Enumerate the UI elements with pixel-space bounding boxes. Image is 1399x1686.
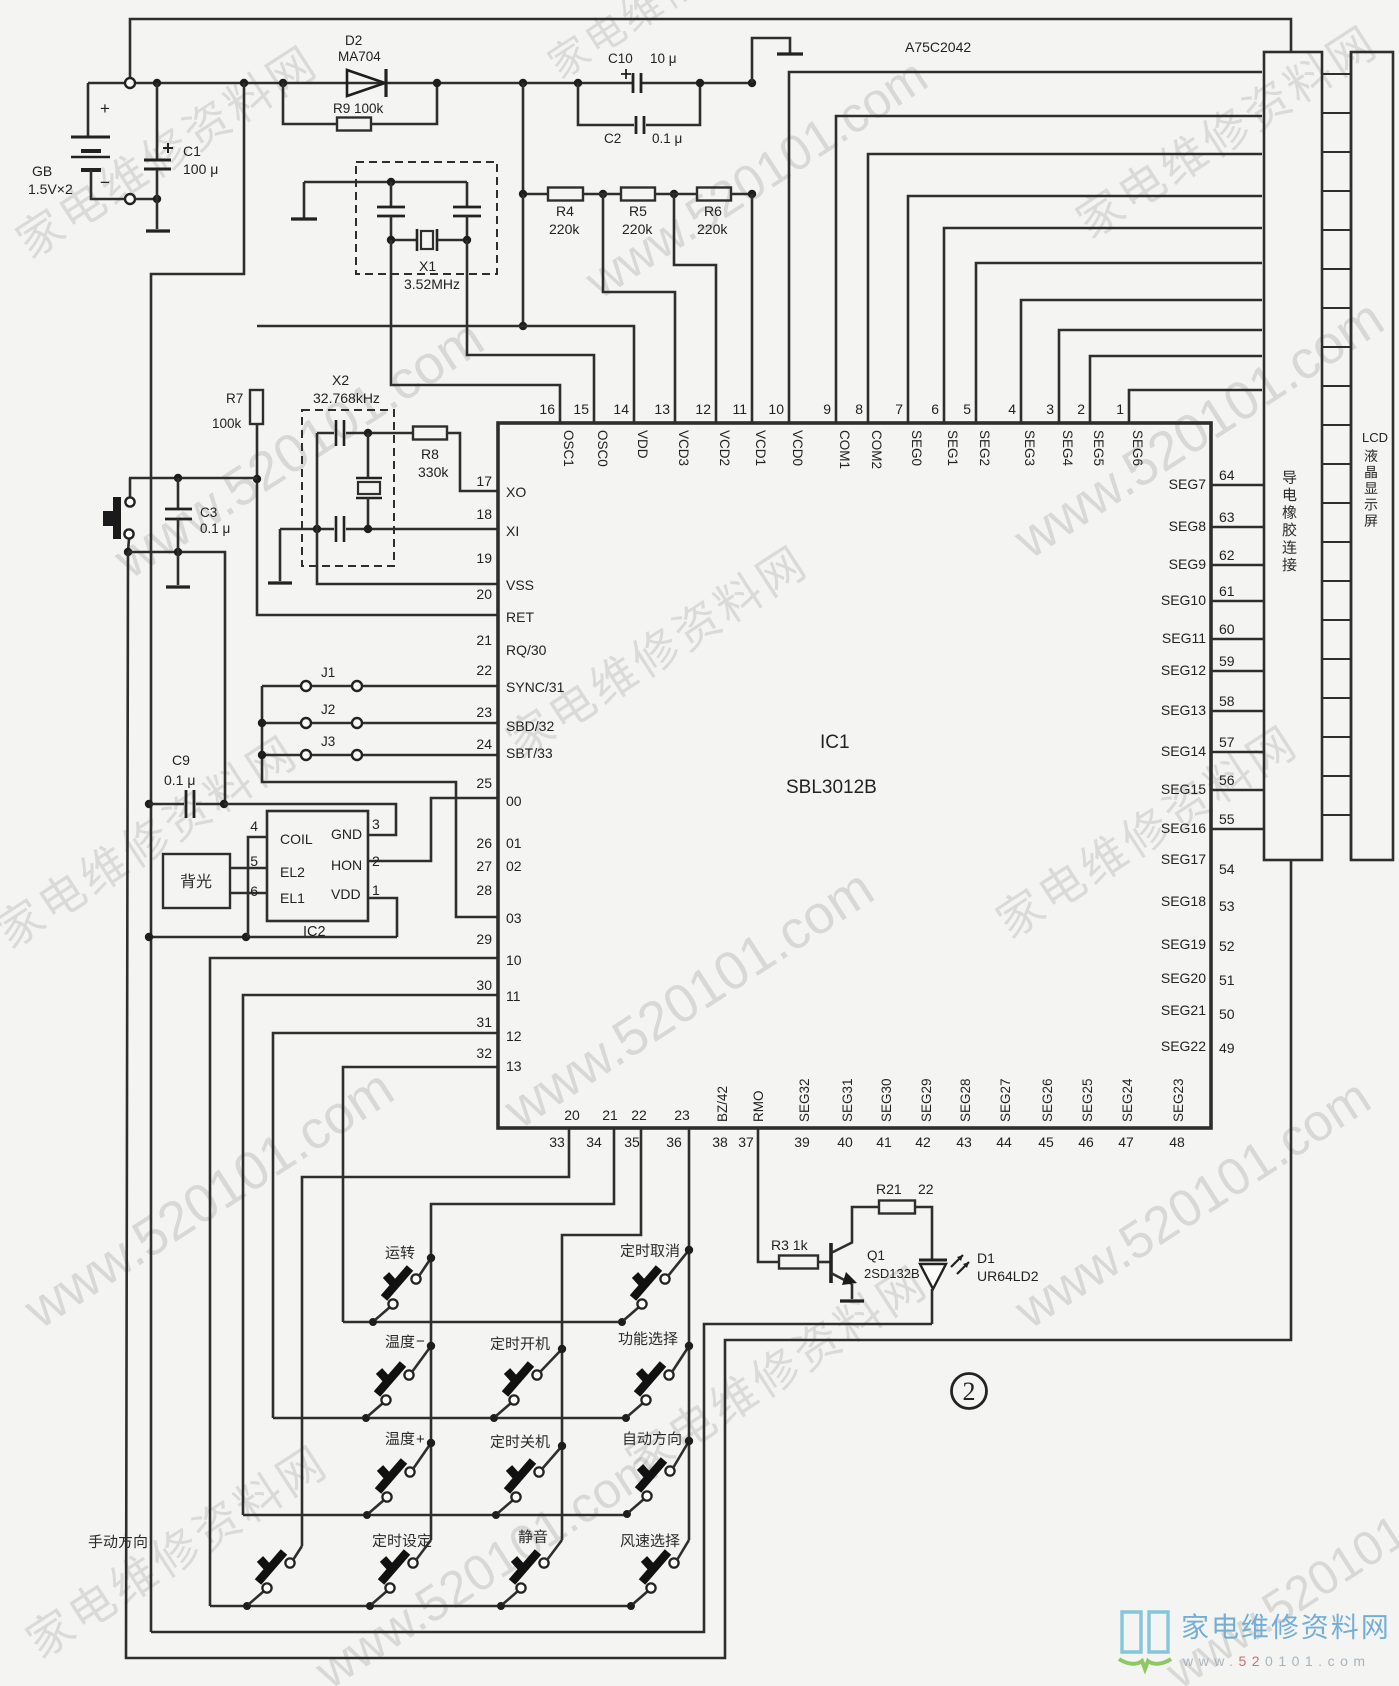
svg-text:RMO: RMO: [751, 1091, 766, 1123]
svg-text:SEG5: SEG5: [1091, 430, 1106, 466]
ground Q1 emitter: [851, 1284, 854, 1299]
wire IC1 SEG15 to LCD connector: [1211, 789, 1264, 792]
svg-text:+: +: [416, 1431, 425, 1448]
wire button row4: [210, 1605, 631, 1608]
svg-text:J2: J2: [321, 702, 335, 717]
svg-text:55: 55: [1219, 811, 1235, 827]
svg-text:11: 11: [732, 401, 747, 417]
svg-text:63: 63: [1219, 509, 1235, 525]
switch timer-off: [492, 1511, 500, 1519]
wire VDD node down: [522, 194, 525, 326]
label conductive rubber: [1282, 471, 1296, 572]
svg-text:49: 49: [1219, 1040, 1235, 1056]
wire IC1 SEG11 to LCD connector: [1211, 638, 1264, 641]
svg-text:52: 52: [1219, 938, 1235, 954]
svg-text:38: 38: [712, 1134, 728, 1150]
svg-text:2: 2: [963, 1377, 976, 1406]
jumper J1 circle left: [301, 681, 311, 691]
svg-text:23: 23: [674, 1107, 690, 1123]
capacitor C10 10u (series in rail): [633, 73, 641, 93]
svg-text:1: 1: [372, 882, 380, 898]
svg-text:40: 40: [837, 1134, 853, 1150]
svg-text:SEG10: SEG10: [1161, 592, 1206, 608]
jumper J1 circle right: [352, 681, 362, 691]
svg-text:SEG32: SEG32: [797, 1078, 812, 1122]
svg-text:4: 4: [250, 818, 258, 834]
svg-text:X1: X1: [419, 258, 436, 274]
svg-text:SEG25: SEG25: [1080, 1078, 1095, 1122]
svg-text:GND: GND: [331, 826, 362, 842]
node C3 bottom: [174, 548, 182, 556]
svg-text:A75C2042: A75C2042: [905, 39, 971, 55]
switch manual-direction: [243, 1602, 251, 1610]
svg-text:16: 16: [539, 401, 555, 417]
wire button common row: [128, 552, 225, 804]
svg-text:62: 62: [1219, 547, 1235, 563]
svg-text:+: +: [100, 99, 110, 118]
wire IC1 SEG9 to LCD connector: [1211, 564, 1264, 567]
svg-text:VDD: VDD: [635, 430, 650, 459]
jumper J3: [262, 754, 300, 757]
svg-text:22: 22: [918, 1181, 934, 1197]
svg-text:SEG24: SEG24: [1120, 1078, 1135, 1122]
wire IC1 SEG14 to LCD connector: [1211, 751, 1264, 754]
svg-text:VDD: VDD: [331, 886, 361, 902]
svg-text:18: 18: [476, 506, 492, 522]
wire IC1 pin 7 to LCD connector: [908, 196, 1262, 423]
svg-text:4: 4: [1008, 401, 1016, 417]
wire C9 to IC2 GND: [224, 804, 396, 835]
section mark circled-2: [952, 1374, 987, 1409]
svg-text:R4: R4: [556, 203, 574, 219]
svg-text:VSS: VSS: [506, 577, 534, 593]
diode D2 MA704: [347, 70, 385, 96]
svg-text:www.520101.com: www.520101.com: [305, 1437, 667, 1686]
svg-text:3: 3: [1046, 401, 1054, 417]
wire IC1 pin 10 to LCD connector: [789, 72, 1262, 423]
svg-text:R3 1k: R3 1k: [771, 1237, 809, 1253]
wire pin35 column C: [562, 1128, 641, 1540]
svg-text:OSC1: OSC1: [561, 430, 576, 467]
svg-text:SEG30: SEG30: [879, 1078, 894, 1122]
svg-text:UR64LD2: UR64LD2: [977, 1268, 1039, 1284]
node temp-minus column: [427, 1342, 435, 1350]
node rail C1: [153, 79, 161, 87]
svg-text:SEG26: SEG26: [1040, 1078, 1055, 1122]
svg-text:56: 56: [1219, 772, 1235, 788]
svg-text:IC1: IC1: [820, 732, 850, 753]
svg-text:SEG28: SEG28: [958, 1078, 973, 1122]
battery GB 1.5Vx2: [87, 83, 90, 137]
svg-text:VCD3: VCD3: [676, 430, 691, 466]
resistor R8 330k: [413, 427, 447, 440]
jumper J2 circle left: [301, 718, 311, 728]
svg-text:SEG7: SEG7: [1169, 476, 1207, 492]
wire 00 row to HON: [368, 798, 498, 861]
wire IC2 VDD lead: [368, 898, 397, 937]
LED D1 UR64LD2: [919, 1259, 947, 1262]
svg-text:SEG9: SEG9: [1169, 556, 1207, 572]
resistor R21 22: [879, 1201, 915, 1214]
resistor R4 220k: [548, 188, 583, 201]
svg-text:COM2: COM2: [869, 430, 884, 469]
pushbutton circle bottom: [124, 529, 133, 538]
svg-text:SBT/33: SBT/33: [506, 745, 553, 761]
svg-text:R7: R7: [226, 391, 243, 406]
resistor R7 100k: [250, 390, 263, 424]
watermark background texts: [11, 42, 317, 262]
capacitor C3 0.1u: [177, 478, 180, 509]
svg-text:39: 39: [794, 1134, 810, 1150]
wire R4-R5 node to pin13 VCD3: [603, 194, 675, 423]
resistor R5 220k: [583, 193, 621, 196]
svg-text:10: 10: [506, 952, 522, 968]
svg-text:C9: C9: [172, 752, 190, 768]
svg-text:12: 12: [695, 401, 711, 417]
svg-text:GB: GB: [32, 163, 52, 179]
node rail right end: [748, 79, 756, 87]
wire pin32 row to button row1: [343, 1067, 498, 1322]
svg-text:54: 54: [1219, 861, 1235, 877]
wire top line battery+ to LCD connector: [130, 19, 1291, 78]
crystal X2 32.768kHz symbol: [367, 433, 370, 478]
svg-text:6: 6: [931, 401, 939, 417]
svg-text:2: 2: [1077, 401, 1085, 417]
switch run (yunzhuan): [369, 1318, 377, 1326]
svg-text:0.1 μ: 0.1 μ: [652, 131, 682, 146]
svg-text:OSC0: OSC0: [595, 430, 610, 467]
jumper J3 circle left: [301, 750, 311, 760]
svg-text:31: 31: [476, 1014, 492, 1030]
node function-select column: [685, 1342, 693, 1350]
svg-text:RET: RET: [506, 609, 534, 625]
wire pin34 column B: [431, 1128, 614, 1540]
wire IC1 pin 5 to LCD connector: [976, 263, 1262, 423]
svg-text:20: 20: [564, 1107, 580, 1123]
svg-text:SEG14: SEG14: [1161, 743, 1206, 759]
svg-text:33: 33: [549, 1134, 565, 1150]
backlight box: [163, 854, 230, 908]
svg-text:37: 37: [738, 1134, 754, 1150]
svg-text:03: 03: [506, 910, 522, 926]
jumper J1: [262, 685, 300, 688]
svg-text:45: 45: [1038, 1134, 1054, 1150]
svg-text:SEG23: SEG23: [1171, 1078, 1186, 1122]
svg-text:RQ/30: RQ/30: [506, 642, 547, 658]
connector pad ladder: [1322, 73, 1351, 75]
jumper J2: [262, 722, 300, 725]
wire pin30 row to button row3: [243, 995, 498, 1515]
wire R21 to D1: [915, 1207, 932, 1259]
svg-text:5: 5: [250, 853, 258, 869]
svg-text:SYNC/31: SYNC/31: [506, 679, 565, 695]
svg-text:48: 48: [1169, 1134, 1185, 1150]
svg-text:EL1: EL1: [280, 890, 305, 906]
wire R8 to pin17 XO: [447, 433, 498, 491]
svg-text:SEG13: SEG13: [1161, 702, 1206, 718]
wire VDD battery row: [149, 936, 397, 939]
wire IC1 pin 4 to LCD connector: [1021, 300, 1262, 423]
svg-text:8: 8: [855, 401, 863, 417]
svg-text:17: 17: [476, 473, 492, 489]
wire X2 bottom XI row: [280, 528, 334, 531]
svg-text:VCD2: VCD2: [717, 430, 732, 466]
wire X1 right to pin15 OSC0: [467, 240, 594, 423]
wire R3 to Q1 base: [818, 1261, 830, 1264]
wire main V+ rail: [88, 82, 125, 85]
svg-text:COIL: COIL: [280, 831, 313, 847]
svg-text:22: 22: [476, 662, 492, 678]
node rail R9 branch: [279, 79, 287, 87]
crystal X2 dashed box: [302, 410, 394, 566]
node battery minus to C1: [135, 198, 157, 201]
svg-text:0.1 μ: 0.1 μ: [200, 521, 230, 536]
wire reset row: [129, 477, 257, 480]
wire jumper common: [262, 686, 498, 917]
node X1 crystal right: [463, 236, 471, 244]
node VDD junction: [519, 322, 527, 330]
wire EL2 lead: [230, 867, 267, 870]
wire IC1 pin 2 to LCD connector: [1090, 356, 1262, 423]
svg-text:SEG22: SEG22: [1161, 1038, 1206, 1054]
node timer-cancel column: [685, 1246, 693, 1254]
node COIL junction: [242, 933, 250, 941]
svg-text:SBL3012B: SBL3012B: [786, 777, 877, 798]
svg-text:28: 28: [476, 882, 492, 898]
svg-text:R21: R21: [876, 1181, 902, 1197]
svg-text:R6: R6: [704, 203, 722, 219]
wire D1 return loop: [151, 1324, 932, 1632]
svg-text:35: 35: [624, 1134, 640, 1150]
node J3 common: [258, 751, 266, 759]
svg-text:SEG29: SEG29: [919, 1078, 934, 1122]
svg-text:HON: HON: [331, 857, 362, 873]
node auto-direction column: [685, 1437, 693, 1445]
svg-text:C10: C10: [608, 51, 633, 66]
svg-text:R9 100k: R9 100k: [333, 101, 384, 116]
svg-text:50: 50: [1219, 1006, 1235, 1022]
svg-text:29: 29: [476, 931, 492, 947]
svg-text:9: 9: [823, 401, 831, 417]
svg-text:SEG4: SEG4: [1060, 430, 1075, 467]
svg-text:BZ/42: BZ/42: [715, 1086, 730, 1122]
svg-text:0.1 μ: 0.1 μ: [164, 772, 195, 788]
ground X2: [279, 529, 282, 581]
svg-text:23: 23: [476, 704, 492, 720]
wire R5-R6 node to pin12 VCD2: [674, 194, 716, 423]
svg-text:VCD0: VCD0: [790, 430, 805, 466]
svg-text:60: 60: [1219, 621, 1235, 637]
svg-text:SEG19: SEG19: [1161, 936, 1206, 952]
svg-text:19: 19: [476, 550, 492, 566]
wire IC1 SEG16 to LCD connector: [1211, 828, 1264, 831]
svg-text:14: 14: [613, 401, 629, 417]
svg-text:SEG17: SEG17: [1161, 851, 1206, 867]
svg-text:R5: R5: [629, 203, 647, 219]
svg-text:D2: D2: [345, 33, 362, 48]
svg-text:SEG2: SEG2: [977, 430, 992, 466]
svg-text:22: 22: [631, 1107, 647, 1123]
wire X1 top: [304, 181, 467, 184]
capacitor X2 bottom: [336, 516, 344, 542]
node X2 bottom right: [364, 525, 372, 533]
wire IC1 SEG13 to LCD connector: [1211, 710, 1264, 713]
op-amp U-IC1 SBL3012B body: [498, 423, 1211, 1128]
svg-text:MA704: MA704: [338, 49, 381, 64]
svg-text:7: 7: [895, 401, 903, 417]
svg-text:47: 47: [1118, 1134, 1134, 1150]
svg-text:VCD1: VCD1: [753, 430, 768, 466]
capacitor C2 0.1u bypass: [578, 83, 634, 125]
wire VDD to R7: [257, 325, 523, 328]
wire pin31 row to button row2: [273, 1033, 498, 1418]
node J2 common: [258, 719, 266, 727]
svg-text:COM1: COM1: [837, 430, 852, 469]
svg-text:24: 24: [476, 736, 492, 752]
node rail C9: [145, 800, 153, 808]
svg-text:1: 1: [1116, 401, 1124, 417]
capacitor X1 right: [466, 182, 469, 207]
node C9 right: [220, 800, 228, 808]
switch temp-minus: [362, 1414, 370, 1422]
svg-text:−: −: [100, 173, 110, 192]
wire button row3: [243, 1514, 627, 1517]
svg-text:01: 01: [506, 835, 522, 851]
node run column: [427, 1254, 435, 1262]
ground top (near A75C2042): [752, 38, 790, 83]
svg-text:13: 13: [654, 401, 670, 417]
svg-text:25: 25: [476, 775, 492, 791]
node rail VDD row: [145, 933, 153, 941]
svg-text:41: 41: [876, 1134, 892, 1150]
svg-text:C1: C1: [183, 143, 201, 159]
svg-text:SEG20: SEG20: [1161, 970, 1206, 986]
wire button row2: [273, 1417, 626, 1420]
svg-text:www.520101.com: www.520101.com: [13, 1058, 404, 1341]
svg-text:SEG27: SEG27: [998, 1078, 1013, 1122]
svg-text:5: 5: [963, 401, 971, 417]
svg-text:00: 00: [506, 793, 522, 809]
svg-text:R8: R8: [421, 446, 439, 462]
svg-text:D1: D1: [977, 1250, 995, 1266]
wire rail to R4 row: [522, 83, 525, 194]
svg-text:220k: 220k: [549, 221, 580, 237]
wire R7 to RET: [257, 424, 498, 615]
node X2 bottom left: [313, 525, 321, 533]
crystal X1 dashed box: [356, 162, 497, 274]
svg-text:SEG3: SEG3: [1022, 430, 1037, 466]
node X1 top junction: [387, 178, 395, 186]
svg-text:C3: C3: [200, 505, 217, 520]
svg-text:3: 3: [372, 816, 380, 832]
svg-text:21: 21: [602, 1107, 618, 1123]
svg-text:EL2: EL2: [280, 864, 305, 880]
svg-text:J3: J3: [321, 734, 335, 749]
wire rail down-left long rail: [151, 83, 244, 1632]
svg-text:330k: 330k: [418, 464, 449, 480]
wire R6 right to pin11 VCD1: [751, 194, 754, 423]
svg-text:51: 51: [1219, 972, 1235, 988]
switch mute: [497, 1602, 505, 1610]
node timer-off column: [558, 1442, 566, 1450]
svg-text:61: 61: [1219, 583, 1235, 599]
battery terminal circle +: [125, 78, 135, 88]
svg-text:12: 12: [506, 1028, 522, 1044]
svg-text:SEG0: SEG0: [909, 430, 924, 466]
pushbutton reset: [113, 497, 121, 539]
transistor Q1 2SD132B: [829, 1243, 833, 1283]
node R4 left: [519, 190, 527, 198]
svg-text:www.520101.com: www.520101.com: [575, 47, 937, 309]
svg-text:www.520101.com: www.520101.com: [1156, 1448, 1399, 1686]
svg-text:57: 57: [1219, 734, 1235, 750]
wire X1 left to pin16 OSC1: [391, 240, 560, 423]
svg-text:02: 02: [506, 858, 522, 874]
wire pin36 column D: [688, 1128, 691, 1540]
svg-text:www.520101.com: www.520101.com: [493, 858, 884, 1141]
node rail to left frame: [240, 79, 248, 87]
svg-text:1.5V×2: 1.5V×2: [28, 181, 73, 197]
svg-text:58: 58: [1219, 693, 1235, 709]
svg-text:30: 30: [476, 977, 492, 993]
wire COIL jog: [248, 837, 267, 937]
node button common: [124, 548, 132, 556]
svg-text:SEG16: SEG16: [1161, 820, 1206, 836]
svg-text:SEG8: SEG8: [1169, 518, 1207, 534]
svg-text:SEG21: SEG21: [1161, 1002, 1206, 1018]
svg-text:www.520101.com: www.520101.com: [1004, 1068, 1381, 1341]
node temp-plus column: [427, 1439, 435, 1447]
svg-text:Q1: Q1: [867, 1248, 885, 1263]
jumper J2 circle right: [352, 718, 362, 728]
svg-text:26: 26: [476, 835, 492, 851]
wire IC1 SEG12 to LCD connector: [1211, 670, 1264, 673]
wire IC1 pin 1 to LCD connector: [1129, 390, 1262, 423]
svg-text:2SD132B: 2SD132B: [864, 1266, 920, 1281]
svg-text:34: 34: [586, 1134, 602, 1150]
wire IC1 pin 9 to LCD connector: [836, 116, 1262, 423]
svg-text:42: 42: [915, 1134, 931, 1150]
wire IC1 pin 8 to LCD connector: [868, 154, 1262, 423]
capacitor C9 0.1u: [149, 803, 184, 806]
node rail C2 left: [574, 79, 582, 87]
wire pin33 column A: [302, 1128, 569, 1546]
svg-text:53: 53: [1219, 898, 1235, 914]
node R4-R5: [599, 190, 607, 198]
svg-text:SEG6: SEG6: [1130, 430, 1145, 466]
svg-text:220k: 220k: [622, 221, 653, 237]
svg-text:13: 13: [506, 1058, 522, 1074]
svg-text:43: 43: [956, 1134, 972, 1150]
capacitor X1 left: [390, 182, 393, 207]
logo site name: [1183, 1613, 1387, 1639]
svg-text:220k: 220k: [697, 221, 728, 237]
logo book icon: [1122, 1612, 1141, 1652]
conductive rubber connector bar: [1264, 52, 1322, 860]
svg-text:SEG18: SEG18: [1161, 893, 1206, 909]
wire IC1 SEG8 to LCD connector: [1211, 526, 1264, 529]
node C3 top: [174, 474, 182, 482]
switch fanspeed-select: [627, 1602, 635, 1610]
node timer-on column: [558, 1345, 566, 1353]
svg-text:SEG11: SEG11: [1162, 630, 1206, 646]
svg-text:100 μ: 100 μ: [183, 161, 218, 177]
svg-text:10 μ: 10 μ: [650, 51, 677, 66]
wire pin37 RMO to R3: [758, 1128, 779, 1262]
switch auto-direction: [623, 1510, 631, 1518]
switch timer-cancel: [618, 1318, 626, 1326]
switch timer-set: [366, 1602, 374, 1610]
